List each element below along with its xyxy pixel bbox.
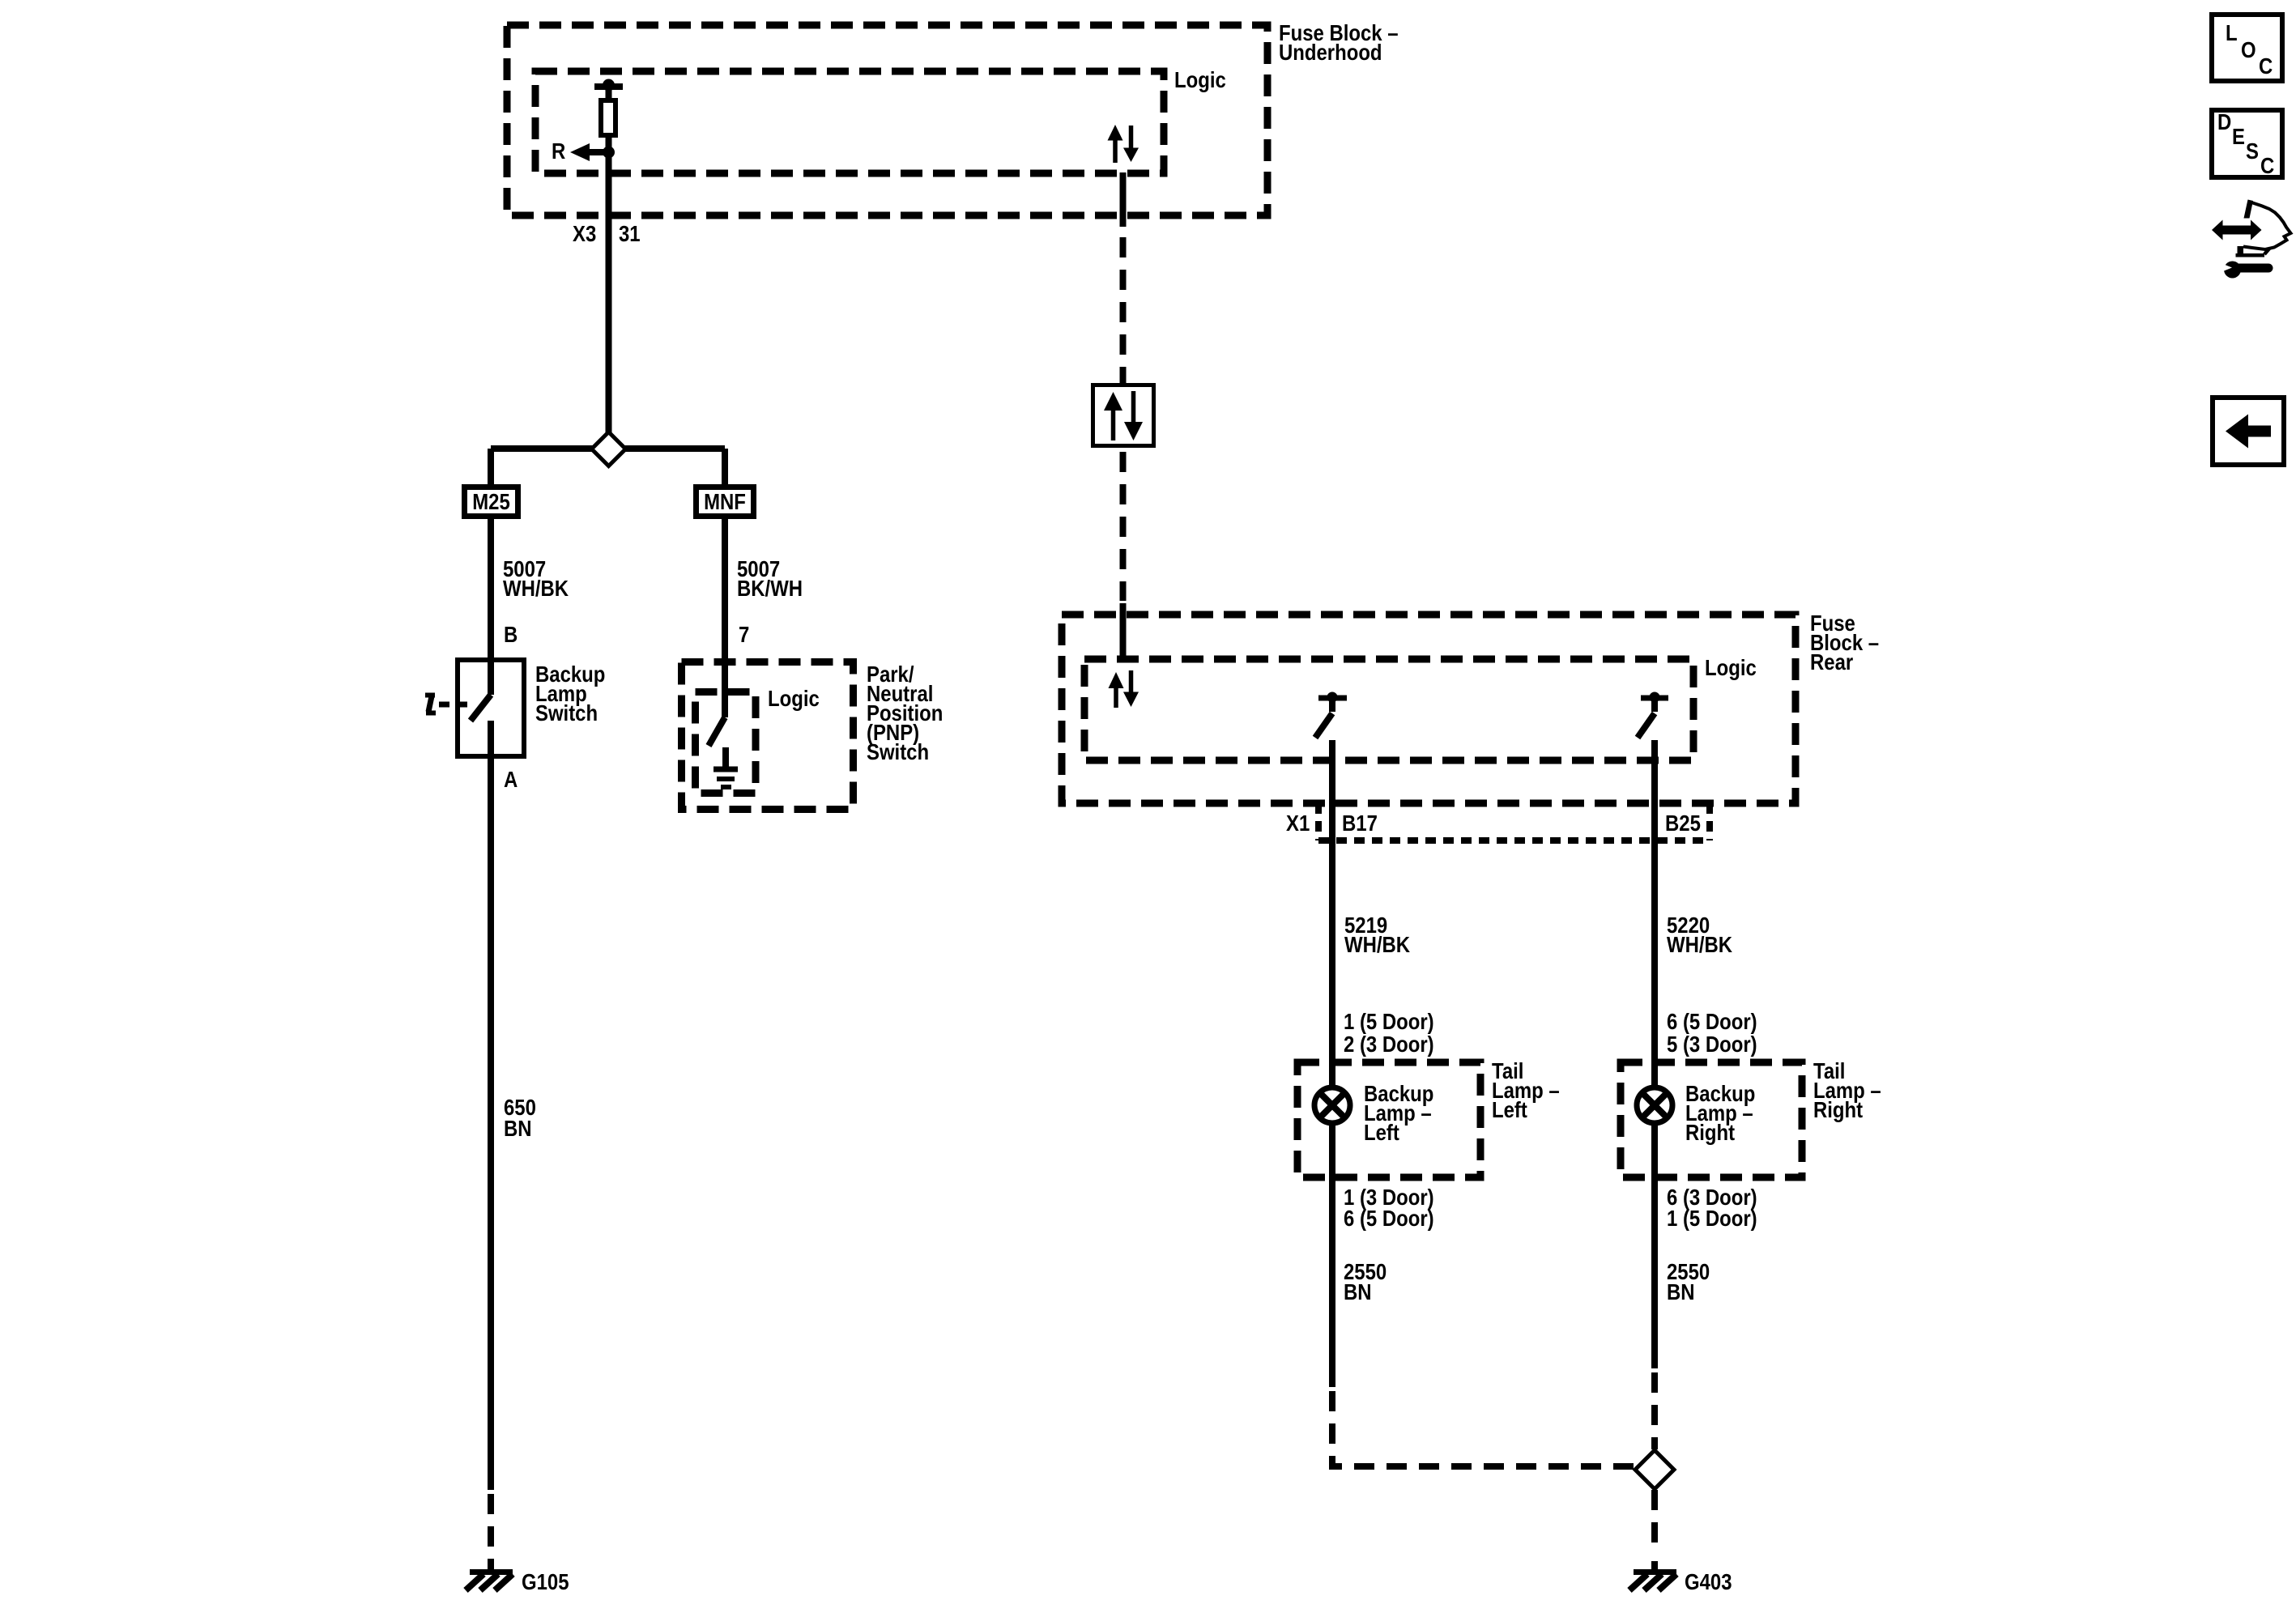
connector M25	[465, 487, 518, 517]
svg-text:G105: G105	[522, 1571, 569, 1595]
svg-text:6 (5 Door): 6 (5 Door)	[1344, 1207, 1434, 1232]
tail lamp - left dashed box	[1297, 1062, 1480, 1177]
connector MNF	[696, 487, 754, 517]
label Park/Neutral Position (PNP) Switch	[867, 663, 943, 765]
svg-text:Logic: Logic	[1705, 657, 1757, 681]
up/down arrows (rear logic)	[1109, 670, 1139, 708]
labels X1 B17 B25	[1286, 812, 1701, 836]
wire 5007 BK/WH	[722, 519, 728, 658]
back arrow button	[2213, 398, 2284, 465]
splice diamond S	[592, 432, 626, 466]
DESC icon button	[2212, 110, 2282, 178]
horizontal branch wire	[491, 445, 725, 452]
svg-text:6 (5 Door): 6 (5 Door)	[1667, 1011, 1757, 1035]
backup lamp - right (lamp symbol)	[1637, 1087, 1672, 1123]
svg-text:31: 31	[619, 223, 641, 247]
svg-text:R: R	[552, 140, 566, 164]
in-line connector box with up/down arrows	[1093, 385, 1154, 446]
svg-text:L: L	[2226, 22, 2238, 46]
svg-text:5 (3 Door): 5 (3 Door)	[1667, 1033, 1757, 1057]
label Backup Lamp - Left	[1364, 1083, 1433, 1146]
backup lamp switch box	[458, 660, 524, 756]
ground G403	[1629, 1561, 1676, 1590]
LOC icon button	[2212, 15, 2282, 81]
solid wire into rear logic box	[1120, 603, 1127, 659]
svg-text:Switch: Switch	[535, 702, 598, 726]
connector service icon (glove, double arrow, wrench)	[2212, 200, 2291, 279]
svg-text:Logic: Logic	[768, 687, 820, 712]
ground G105	[466, 1561, 513, 1590]
svg-text:1 (5 Door): 1 (5 Door)	[1344, 1011, 1434, 1035]
label Fuse Block - Underhood	[1279, 22, 1399, 66]
fuse F (battery feed terminal bar and dot)	[594, 79, 623, 136]
svg-text:M25: M25	[472, 491, 510, 515]
svg-text:2 (3 Door): 2 (3 Door)	[1344, 1033, 1434, 1057]
logic box (rear)	[1084, 659, 1693, 760]
switch (right, to B25)	[1638, 692, 1668, 738]
svg-text:B25: B25	[1665, 812, 1701, 836]
pins 6 (5 Door) / 5 (3 Door)	[1667, 1011, 1757, 1057]
logic box (PNP)	[696, 692, 756, 794]
switch inside PNP	[709, 658, 725, 746]
label Tail Lamp - Right	[1813, 1060, 1881, 1123]
svg-text:E: E	[2232, 126, 2245, 150]
svg-text:B: B	[504, 623, 518, 648]
svg-text:B17: B17	[1342, 812, 1378, 836]
svg-text:X1: X1	[1286, 812, 1310, 836]
backup lamp - left (lamp symbol)	[1314, 1087, 1350, 1123]
svg-text:Left: Left	[1492, 1099, 1527, 1123]
svg-text:Right: Right	[1813, 1099, 1863, 1123]
svg-text:Rear: Rear	[1810, 651, 1853, 675]
svg-text:G403: G403	[1685, 1571, 1732, 1595]
wire 2550 BN (left)	[1329, 1123, 1335, 1387]
svg-text:1 (5 Door): 1 (5 Door)	[1667, 1207, 1757, 1232]
dashed wire down to fuse block rear	[1120, 452, 1127, 601]
svg-text:O: O	[2241, 39, 2256, 63]
svg-text:WH/BK: WH/BK	[1667, 934, 1732, 958]
dashed actuator link	[439, 702, 471, 708]
wire from underhood logic down (solid inside box)	[1120, 172, 1127, 227]
svg-text:D: D	[2217, 111, 2231, 135]
fuse block - rear (outer dashed box)	[1062, 615, 1795, 803]
svg-text:BK/WH: BK/WH	[737, 577, 803, 602]
fuse block - underhood (outer dashed box)	[507, 25, 1267, 215]
dashed wire to G403	[1651, 1490, 1658, 1553]
wire to MNF	[722, 449, 728, 484]
wire 2550 BN (right)	[1651, 1123, 1658, 1368]
svg-text:Left: Left	[1364, 1121, 1399, 1146]
dashed wire left lamp to splice	[1332, 1391, 1634, 1466]
switch (left, to B17)	[1315, 692, 1347, 738]
wire 5007 WH/BK	[488, 519, 494, 657]
switch contacts inside backup lamp switch	[471, 657, 491, 759]
svg-text:Underhood: Underhood	[1279, 41, 1382, 66]
pins 1 (3 Door) / 6 (5 Door)	[1344, 1186, 1434, 1232]
svg-text:Right: Right	[1685, 1121, 1735, 1146]
splice diamond (rear)	[1635, 1450, 1674, 1489]
label Fuse Block - Rear	[1810, 612, 1879, 675]
svg-text:WH/BK: WH/BK	[1344, 934, 1410, 958]
svg-text:Logic: Logic	[1174, 69, 1226, 93]
svg-text:S: S	[2246, 140, 2259, 164]
svg-text:X3: X3	[573, 223, 596, 247]
dashed wire down to in-line connector	[1120, 237, 1127, 385]
ground symbol inside PNP	[714, 747, 738, 787]
svg-text:BN: BN	[1667, 1281, 1695, 1305]
tail lamp - right dashed box	[1621, 1062, 1802, 1177]
svg-text:BN: BN	[504, 1117, 532, 1142]
pins 6 (3 Door) / 1 (5 Door)	[1667, 1186, 1757, 1232]
mechanical actuator (lightning) symbol	[425, 696, 436, 713]
R feed arrow	[570, 143, 607, 161]
svg-text:A: A	[504, 768, 518, 793]
logic box (underhood)	[535, 71, 1164, 173]
svg-text:BN: BN	[1344, 1281, 1372, 1305]
label Tail Lamp - Left	[1492, 1060, 1560, 1123]
wire 5219 WH/BK	[1329, 740, 1335, 1087]
svg-text:MNF: MNF	[704, 491, 746, 515]
wire 650 BN	[488, 759, 494, 1490]
wire from fuse down to splice diamond	[606, 138, 612, 433]
connector strip X1	[1318, 803, 1710, 840]
pins 1 (5 Door) / 2 (3 Door)	[1344, 1011, 1434, 1057]
connector label X3 | 31	[573, 223, 641, 247]
label Backup Lamp Switch	[535, 663, 605, 726]
park/neutral position switch dashed box	[682, 662, 854, 810]
dashed wire right lamp to splice	[1651, 1372, 1658, 1449]
wire 5220 WH/BK	[1651, 740, 1658, 1087]
label Backup Lamp - Right	[1685, 1083, 1755, 1146]
wire to M25	[488, 449, 494, 484]
up/down arrows (underhood logic)	[1108, 125, 1139, 163]
svg-text:Switch: Switch	[867, 741, 929, 765]
svg-text:C: C	[2260, 155, 2274, 179]
svg-text:7: 7	[739, 623, 749, 648]
junction dot node R	[603, 147, 615, 159]
svg-text:WH/BK: WH/BK	[503, 577, 569, 602]
svg-text:C: C	[2259, 55, 2273, 79]
